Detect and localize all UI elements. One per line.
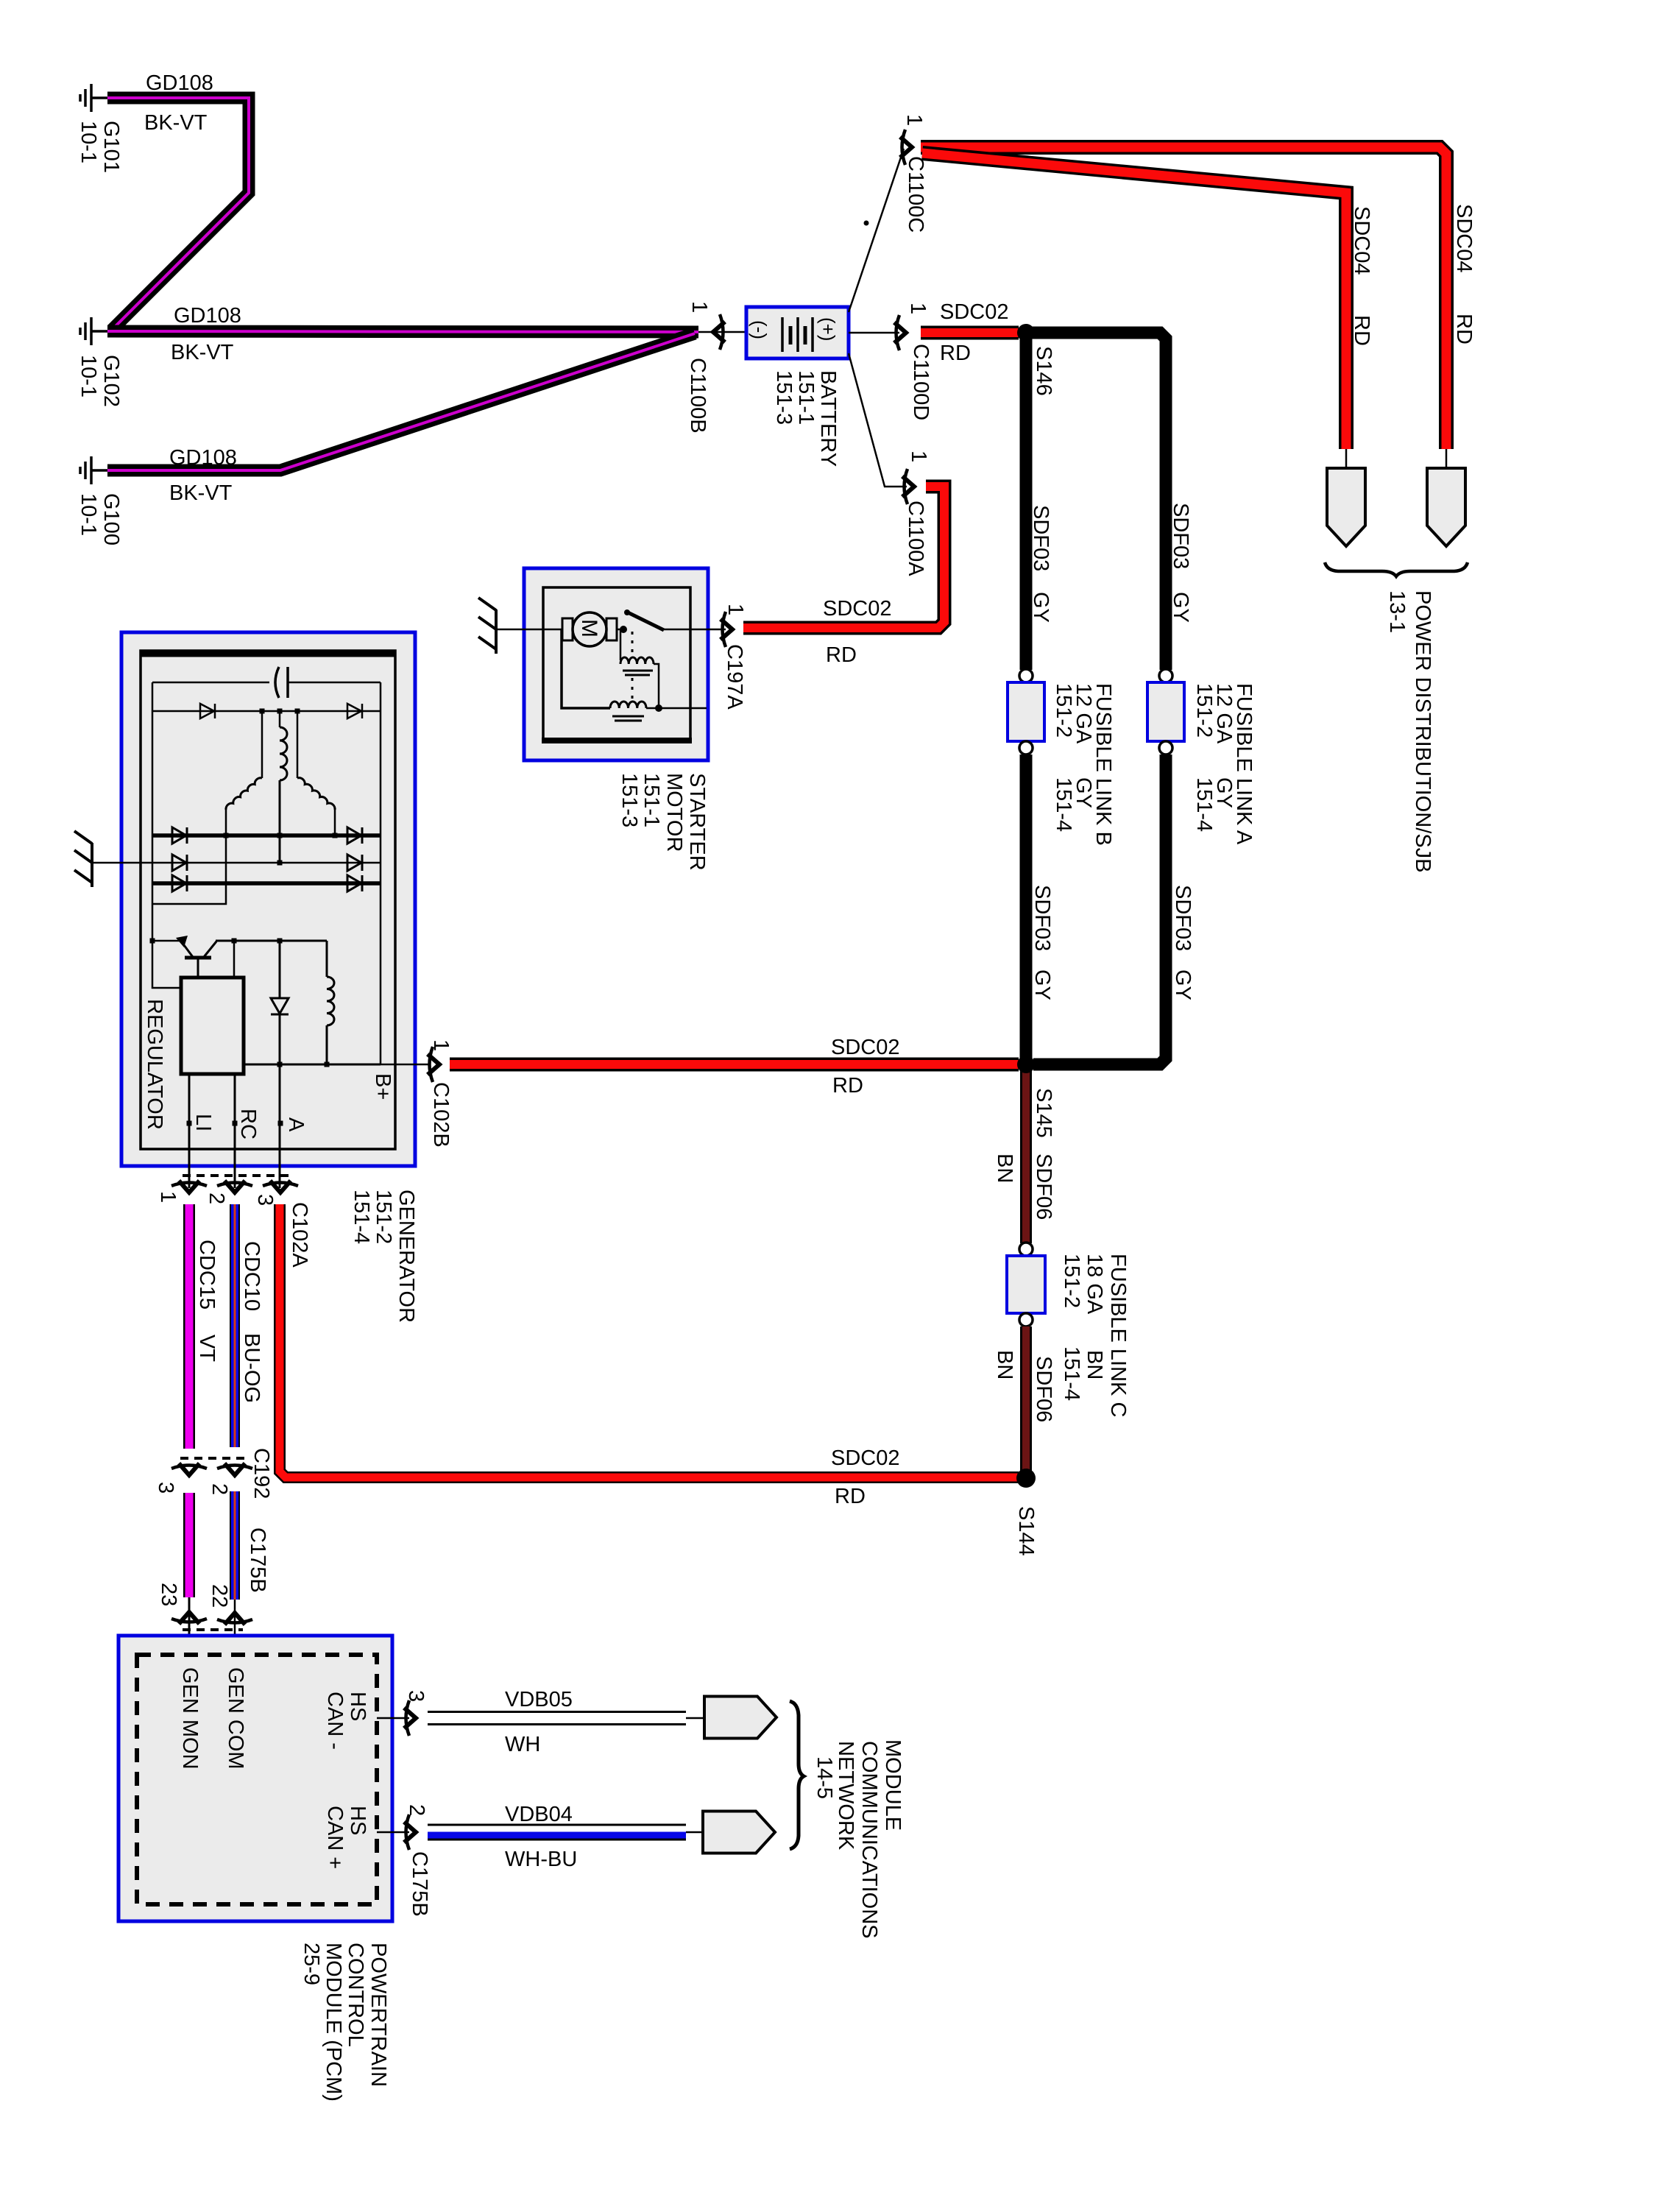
A line through diode (279, 1014, 281, 1064)
fusible link C terminal circle top (1019, 1243, 1033, 1256)
svg-text:10-1: 10-1 (77, 493, 100, 536)
connector C1100C (900, 130, 912, 165)
connector C192 dashed line (180, 1457, 244, 1460)
chassis ground (generator) (74, 831, 92, 887)
svg-text:13-1: 13-1 (1385, 590, 1409, 633)
svg-text:G102: G102 (99, 355, 123, 407)
svg-text:G101: G101 (99, 121, 123, 173)
connector arrow pin 2 (C175B CAN+) (404, 1815, 416, 1850)
battery BAT1 box (746, 307, 849, 358)
svg-text:C1100D: C1100D (909, 344, 933, 420)
svg-text:COMMUNICATIONS: COMMUNICATIONS (857, 1741, 881, 1939)
svg-text:(+): (+) (817, 317, 839, 342)
svg-text:C175B: C175B (408, 1851, 431, 1917)
stator phase tap left (261, 711, 263, 778)
lead to network terminal (CAN-) (686, 1717, 705, 1720)
svg-text:1: 1 (902, 114, 926, 126)
svg-text:FUSIBLE LINK C: FUSIBLE LINK C (1106, 1254, 1130, 1417)
field diode line (A line upper) (279, 941, 281, 998)
svg-text:151-1: 151-1 (640, 773, 663, 827)
svg-text:GY: GY (1030, 969, 1054, 1000)
transistor Q1 collector diagonal (204, 941, 216, 957)
svg-text:SDF06: SDF06 (1032, 1153, 1055, 1220)
wire VDB04 WH-BU (428, 1824, 686, 1841)
solenoid pull-in coil (620, 657, 654, 664)
svg-text:HS: HS (346, 1806, 369, 1835)
generator inner case box (141, 651, 395, 1149)
svg-text:1: 1 (906, 303, 930, 314)
svg-text:VDB05: VDB05 (505, 1688, 573, 1711)
svg-text:1: 1 (723, 604, 747, 615)
svg-text:151-2: 151-2 (1052, 683, 1075, 738)
svg-text:C102B: C102B (429, 1082, 453, 1148)
pin A lead (279, 1064, 281, 1188)
svg-text:GEN MON: GEN MON (178, 1667, 202, 1770)
svg-text:NETWORK: NETWORK (834, 1741, 857, 1851)
svg-text:POWERTRAIN: POWERTRAIN (367, 1943, 390, 2087)
pull-in coil right lead (654, 664, 659, 708)
svg-text:GD108: GD108 (174, 304, 241, 328)
svg-text:151-2: 151-2 (1060, 1254, 1083, 1308)
stator winding left coil (226, 778, 262, 810)
transistor Q1 base bar (185, 956, 211, 960)
starter motor box (524, 568, 708, 760)
svg-text:POWER DISTRIBUTION/SJB: POWER DISTRIBUTION/SJB (1411, 590, 1434, 872)
wire SDF03 GY lower left segment (1020, 755, 1033, 1060)
lead motor to switch (617, 629, 624, 631)
wire SDF06 BN upper (1020, 1071, 1032, 1243)
svg-text:SDF06: SDF06 (1032, 1356, 1055, 1422)
svg-text:22: 22 (208, 1584, 231, 1608)
connector C102A arrow pin 2 (217, 1181, 252, 1192)
svg-text:BN: BN (993, 1350, 1016, 1379)
wire CDC15 VT lower (183, 1493, 195, 1597)
ground G102 (80, 317, 107, 345)
PCM box (118, 1636, 392, 1921)
svg-text:C197A: C197A (723, 644, 746, 710)
network terminal (CAN+) (703, 1812, 775, 1854)
wire SDC02 RD generator A to S144 (280, 1204, 1019, 1477)
generator case ground wire (92, 862, 152, 864)
motor brush left (562, 618, 573, 640)
svg-text:151-1: 151-1 (794, 370, 818, 425)
svg-text:2: 2 (205, 1192, 228, 1204)
svg-text:SDC02: SDC02 (831, 1036, 900, 1059)
svg-text:BU-OG: BU-OG (240, 1333, 263, 1403)
wire SDF03 GY upper right segment (1032, 333, 1166, 670)
wire CDC10 BU-OG lower (230, 1491, 240, 1600)
svg-text:25-9: 25-9 (300, 1943, 323, 1985)
PCM inner dashed box (137, 1655, 377, 1904)
splice S144 (1016, 1469, 1036, 1488)
fusible link A terminal circle top (1159, 669, 1172, 682)
svg-text:BATTERY: BATTERY (816, 370, 840, 467)
svg-text:WH-BU: WH-BU (505, 1848, 577, 1871)
connector C102B (428, 1047, 439, 1082)
starter inner case bottom edge (thick) (542, 738, 692, 743)
connector C102A arrow pin 3 (263, 1181, 298, 1192)
svg-text:3: 3 (154, 1482, 177, 1494)
diode D6 (row3 right) (347, 855, 362, 871)
wire right phase to row2 (334, 810, 336, 836)
svg-text:SDC02: SDC02 (940, 300, 1009, 324)
svg-text:GEN COM: GEN COM (224, 1667, 247, 1770)
collector rail to field coil (216, 940, 327, 942)
svg-text:GD108: GD108 (146, 71, 213, 95)
B+ lead out of generator (381, 1064, 431, 1066)
svg-text:WH: WH (505, 1733, 540, 1756)
svg-text:S146: S146 (1032, 346, 1055, 396)
diode D7 (row4 left) (172, 875, 187, 891)
svg-text:REGULATOR: REGULATOR (143, 999, 166, 1130)
svg-text:RD: RD (832, 1074, 863, 1098)
motor brush right (606, 618, 617, 640)
HS CAN- pin lead (377, 1717, 409, 1720)
brace (module network) (790, 1701, 804, 1849)
svg-text:B+: B+ (371, 1073, 394, 1100)
motor return lead (562, 629, 610, 708)
transistor Q1 base lead (197, 959, 199, 978)
generator inner case top edge (thick) (141, 651, 395, 657)
diode D5 (row3 left) (172, 855, 187, 871)
wire GD108 BK-VT from G102 to battery (107, 331, 698, 332)
starter inner case box (543, 587, 690, 742)
pull-in coil core bars (623, 670, 653, 672)
svg-text:CONTROL: CONTROL (344, 1943, 367, 2047)
wire SDC04 RD left (922, 153, 1346, 449)
svg-text:G100: G100 (99, 493, 123, 545)
battery fan-out line to C1100C (849, 149, 904, 312)
wire left phase to bottom (152, 810, 226, 904)
svg-text:1: 1 (687, 301, 711, 313)
svg-text:2: 2 (405, 1804, 428, 1816)
fusible link B terminal circle top (1019, 669, 1033, 682)
svg-text:RC: RC (236, 1109, 260, 1139)
svg-text:CAN +: CAN + (323, 1806, 347, 1869)
svg-text:SDF03: SDF03 (1169, 503, 1192, 569)
transistor Q1 emitter diagonal (184, 945, 193, 957)
field coil L1 (326, 941, 328, 977)
pin RC lead (234, 1074, 236, 1188)
diode D8 (row4 right) (347, 875, 362, 891)
stator phase tap right (297, 711, 299, 778)
svg-text:GY: GY (1169, 592, 1192, 623)
svg-text:151-4: 151-4 (350, 1190, 373, 1244)
connector arrow pin 3 (C175B CAN-) (404, 1700, 416, 1736)
svg-text:151-4: 151-4 (1192, 777, 1216, 832)
return lead to case (646, 707, 707, 710)
fusible link A terminal circle bottom (1159, 741, 1172, 755)
svg-text:LI: LI (191, 1114, 215, 1131)
rectifier bus row 1 (152, 710, 381, 713)
diode D2 (row1 right) (347, 704, 362, 718)
pin LI lead (188, 1074, 191, 1188)
svg-text:MOTOR: MOTOR (662, 773, 686, 852)
connector C1100B (713, 314, 725, 350)
svg-text:C192: C192 (250, 1448, 273, 1499)
SJB cavity terminal (left) (1327, 468, 1365, 546)
diode D4 (row2 right) (347, 827, 362, 844)
switch output lead to C197A (662, 629, 726, 631)
wire SDF03 GY upper left segment (1020, 339, 1033, 670)
chassis ground (starter) (478, 598, 496, 654)
svg-text:VDB04: VDB04 (505, 1803, 573, 1826)
svg-text:MODULE (PCM): MODULE (PCM) (322, 1943, 345, 2102)
connector C175B dashed line (183, 1628, 243, 1631)
connector C1100D (894, 315, 906, 350)
svg-text:151-2: 151-2 (1192, 683, 1216, 738)
svg-text:RD: RD (940, 342, 971, 365)
ground G101 (80, 84, 107, 112)
network terminal (CAN-) (704, 1697, 776, 1739)
svg-text:RD: RD (1452, 314, 1476, 344)
svg-text:BK-VT: BK-VT (144, 111, 208, 135)
wire CDC15 VT upper (183, 1204, 195, 1449)
svg-text:151-4: 151-4 (1052, 777, 1075, 832)
svg-text:C102A: C102A (288, 1202, 311, 1268)
connector C1100A (902, 469, 914, 504)
fusible link C terminal circle bottom (1019, 1313, 1033, 1326)
HS CAN+ pin lead (377, 1831, 409, 1834)
connector C197A (721, 612, 732, 647)
wire VDB05 WH (428, 1711, 686, 1725)
svg-text:23: 23 (157, 1583, 180, 1606)
svg-text:VT: VT (195, 1335, 219, 1362)
svg-text:SDC02: SDC02 (823, 597, 892, 621)
rectifier bus row 4 (thick) (152, 881, 381, 886)
svg-text:C1100A: C1100A (904, 501, 927, 576)
wire CDC10 BU-OG upper (230, 1204, 240, 1447)
svg-text:C1100B: C1100B (686, 358, 710, 434)
svg-text:BN: BN (1083, 1350, 1106, 1379)
generator GEN1 outer box (121, 632, 415, 1166)
switch blade (626, 612, 664, 630)
svg-text:MODULE: MODULE (881, 1739, 905, 1831)
svg-text:1: 1 (429, 1039, 453, 1051)
lead to network terminal (CAN+) (686, 1831, 704, 1834)
svg-text:CAN -: CAN - (323, 1692, 347, 1750)
connector C102A arrow pin 1 (171, 1181, 207, 1192)
motor M1 circle (573, 612, 606, 646)
wire SDF03 GY lower right segment (1033, 755, 1166, 1064)
svg-text:RD: RD (1350, 315, 1373, 346)
svg-text:151-3: 151-3 (618, 773, 641, 827)
battery fan-out line to C1100D (849, 332, 899, 334)
lead into SJB cavity (right) (1446, 449, 1448, 470)
rectifier bus row 3 (152, 862, 381, 864)
fusible link B box (1008, 682, 1044, 741)
transistor Q1 emitter line (153, 940, 183, 942)
wire SDC04 RD right (921, 147, 1446, 449)
diode D3 (row2 left) (172, 827, 187, 844)
svg-text:SDC02: SDC02 (831, 1446, 900, 1470)
wire GD108 BK-VT from G101 (107, 98, 249, 330)
splice S146 (1017, 324, 1035, 342)
svg-text:GENERATOR: GENERATOR (394, 1190, 418, 1323)
wire SDF06 BN lower (1020, 1326, 1032, 1471)
svg-text:BK-VT: BK-VT (171, 341, 234, 364)
stator winding right coil (297, 778, 335, 810)
svg-text:1: 1 (156, 1191, 180, 1203)
lead GEN MON into PCM (188, 1597, 191, 1655)
dot mark (864, 221, 869, 226)
base-drive line to regulator (233, 941, 236, 978)
svg-text:(-): (-) (749, 320, 771, 339)
generator left bus (152, 682, 181, 988)
svg-text:CDC15: CDC15 (195, 1240, 219, 1310)
fusible link C box (1007, 1256, 1045, 1313)
stator winding centre coil (280, 727, 287, 780)
generator right bus (380, 682, 382, 1064)
fusible link B terminal circle bottom (1019, 741, 1033, 755)
svg-text:S145: S145 (1032, 1088, 1055, 1138)
svg-text:SDF03: SDF03 (1171, 885, 1195, 951)
connector C192 arrow pin 3 (171, 1463, 207, 1475)
svg-text:SDC04: SDC04 (1452, 204, 1476, 273)
brace (SJB) (1325, 562, 1468, 576)
svg-text:151-2: 151-2 (372, 1190, 395, 1244)
wire GD108 BK-VT from G100 to battery (107, 333, 695, 470)
svg-text:GD108: GD108 (169, 446, 237, 470)
svg-text:A: A (284, 1117, 308, 1132)
battery fan-out line to C1100A (849, 353, 907, 487)
svg-text:1: 1 (907, 450, 930, 462)
svg-text:18 GA: 18 GA (1083, 1254, 1106, 1315)
connector C102A dashed line (183, 1174, 289, 1177)
svg-text:10-1: 10-1 (77, 121, 100, 163)
connector C192 arrow pin 2 (217, 1463, 252, 1475)
svg-text:3: 3 (404, 1690, 428, 1702)
svg-text:GY: GY (1029, 592, 1052, 623)
wire SDC02 RD starter to C1100A (743, 487, 944, 628)
svg-text:SDC04: SDC04 (1350, 206, 1373, 275)
connector C175B arrow pin 22 (217, 1613, 252, 1625)
splice S145 (1017, 1056, 1035, 1073)
svg-text:C175B: C175B (246, 1527, 269, 1593)
solenoid hold-in coil (610, 702, 646, 708)
regulator box (181, 978, 244, 1074)
ground G100 (80, 456, 107, 484)
generator internal top line (152, 682, 269, 684)
wire to connector C1100B (698, 331, 746, 333)
svg-text:151-3: 151-3 (772, 370, 796, 425)
solenoid link (dashed) upper (631, 632, 634, 657)
svg-text:HS: HS (346, 1692, 369, 1721)
svg-text:BN: BN (993, 1153, 1016, 1183)
svg-text:CDC10: CDC10 (240, 1241, 263, 1311)
svg-text:SDF03: SDF03 (1029, 505, 1052, 571)
svg-text:SDF03: SDF03 (1030, 885, 1054, 951)
lead into SJB cavity (left) (1345, 449, 1348, 470)
transistor Q1 emitter arrow (176, 936, 188, 947)
lead GEN COM into PCM (234, 1600, 236, 1655)
regulator output rail (244, 1064, 381, 1066)
diode D9 (field flyback) (271, 998, 289, 1014)
solenoid pull-in coil lead (620, 629, 622, 660)
capacitor C (curved plate) (275, 667, 279, 698)
ground lead into starter (496, 629, 563, 631)
svg-text:3: 3 (253, 1194, 277, 1206)
diode D1 (row1 left) (200, 704, 215, 718)
svg-text:14-5: 14-5 (813, 1756, 836, 1799)
svg-text:GY: GY (1171, 969, 1195, 1000)
rectifier bus row 2 (thick) (152, 833, 381, 838)
svg-text:C1100C: C1100C (904, 156, 927, 233)
switch pivot node (620, 626, 627, 633)
svg-text:10-1: 10-1 (77, 355, 100, 397)
wire SDC02 RD battery to S146 (921, 326, 1019, 340)
connector C175B arrow pin 23 (171, 1612, 207, 1624)
stator phase tap centre (279, 711, 281, 727)
svg-text:BK-VT: BK-VT (169, 481, 233, 505)
svg-text:151-4: 151-4 (1060, 1346, 1083, 1401)
solenoid link (dashed) lower (631, 678, 634, 704)
svg-text:S144: S144 (1014, 1506, 1038, 1556)
svg-text:2: 2 (208, 1483, 231, 1495)
svg-text:STARTER: STARTER (685, 773, 709, 871)
svg-text:RD: RD (835, 1485, 866, 1508)
battery cell plates (782, 317, 813, 352)
capacitor C (straight plate) (286, 667, 289, 698)
wire SDC02 RD generator B+ to S145 (450, 1058, 1019, 1072)
svg-text:M: M (577, 619, 601, 637)
svg-text:RD: RD (826, 643, 857, 667)
fusible link A box (1147, 682, 1184, 741)
hold-in coil core bars (612, 715, 644, 718)
SJB cavity terminal (right) (1427, 468, 1465, 546)
